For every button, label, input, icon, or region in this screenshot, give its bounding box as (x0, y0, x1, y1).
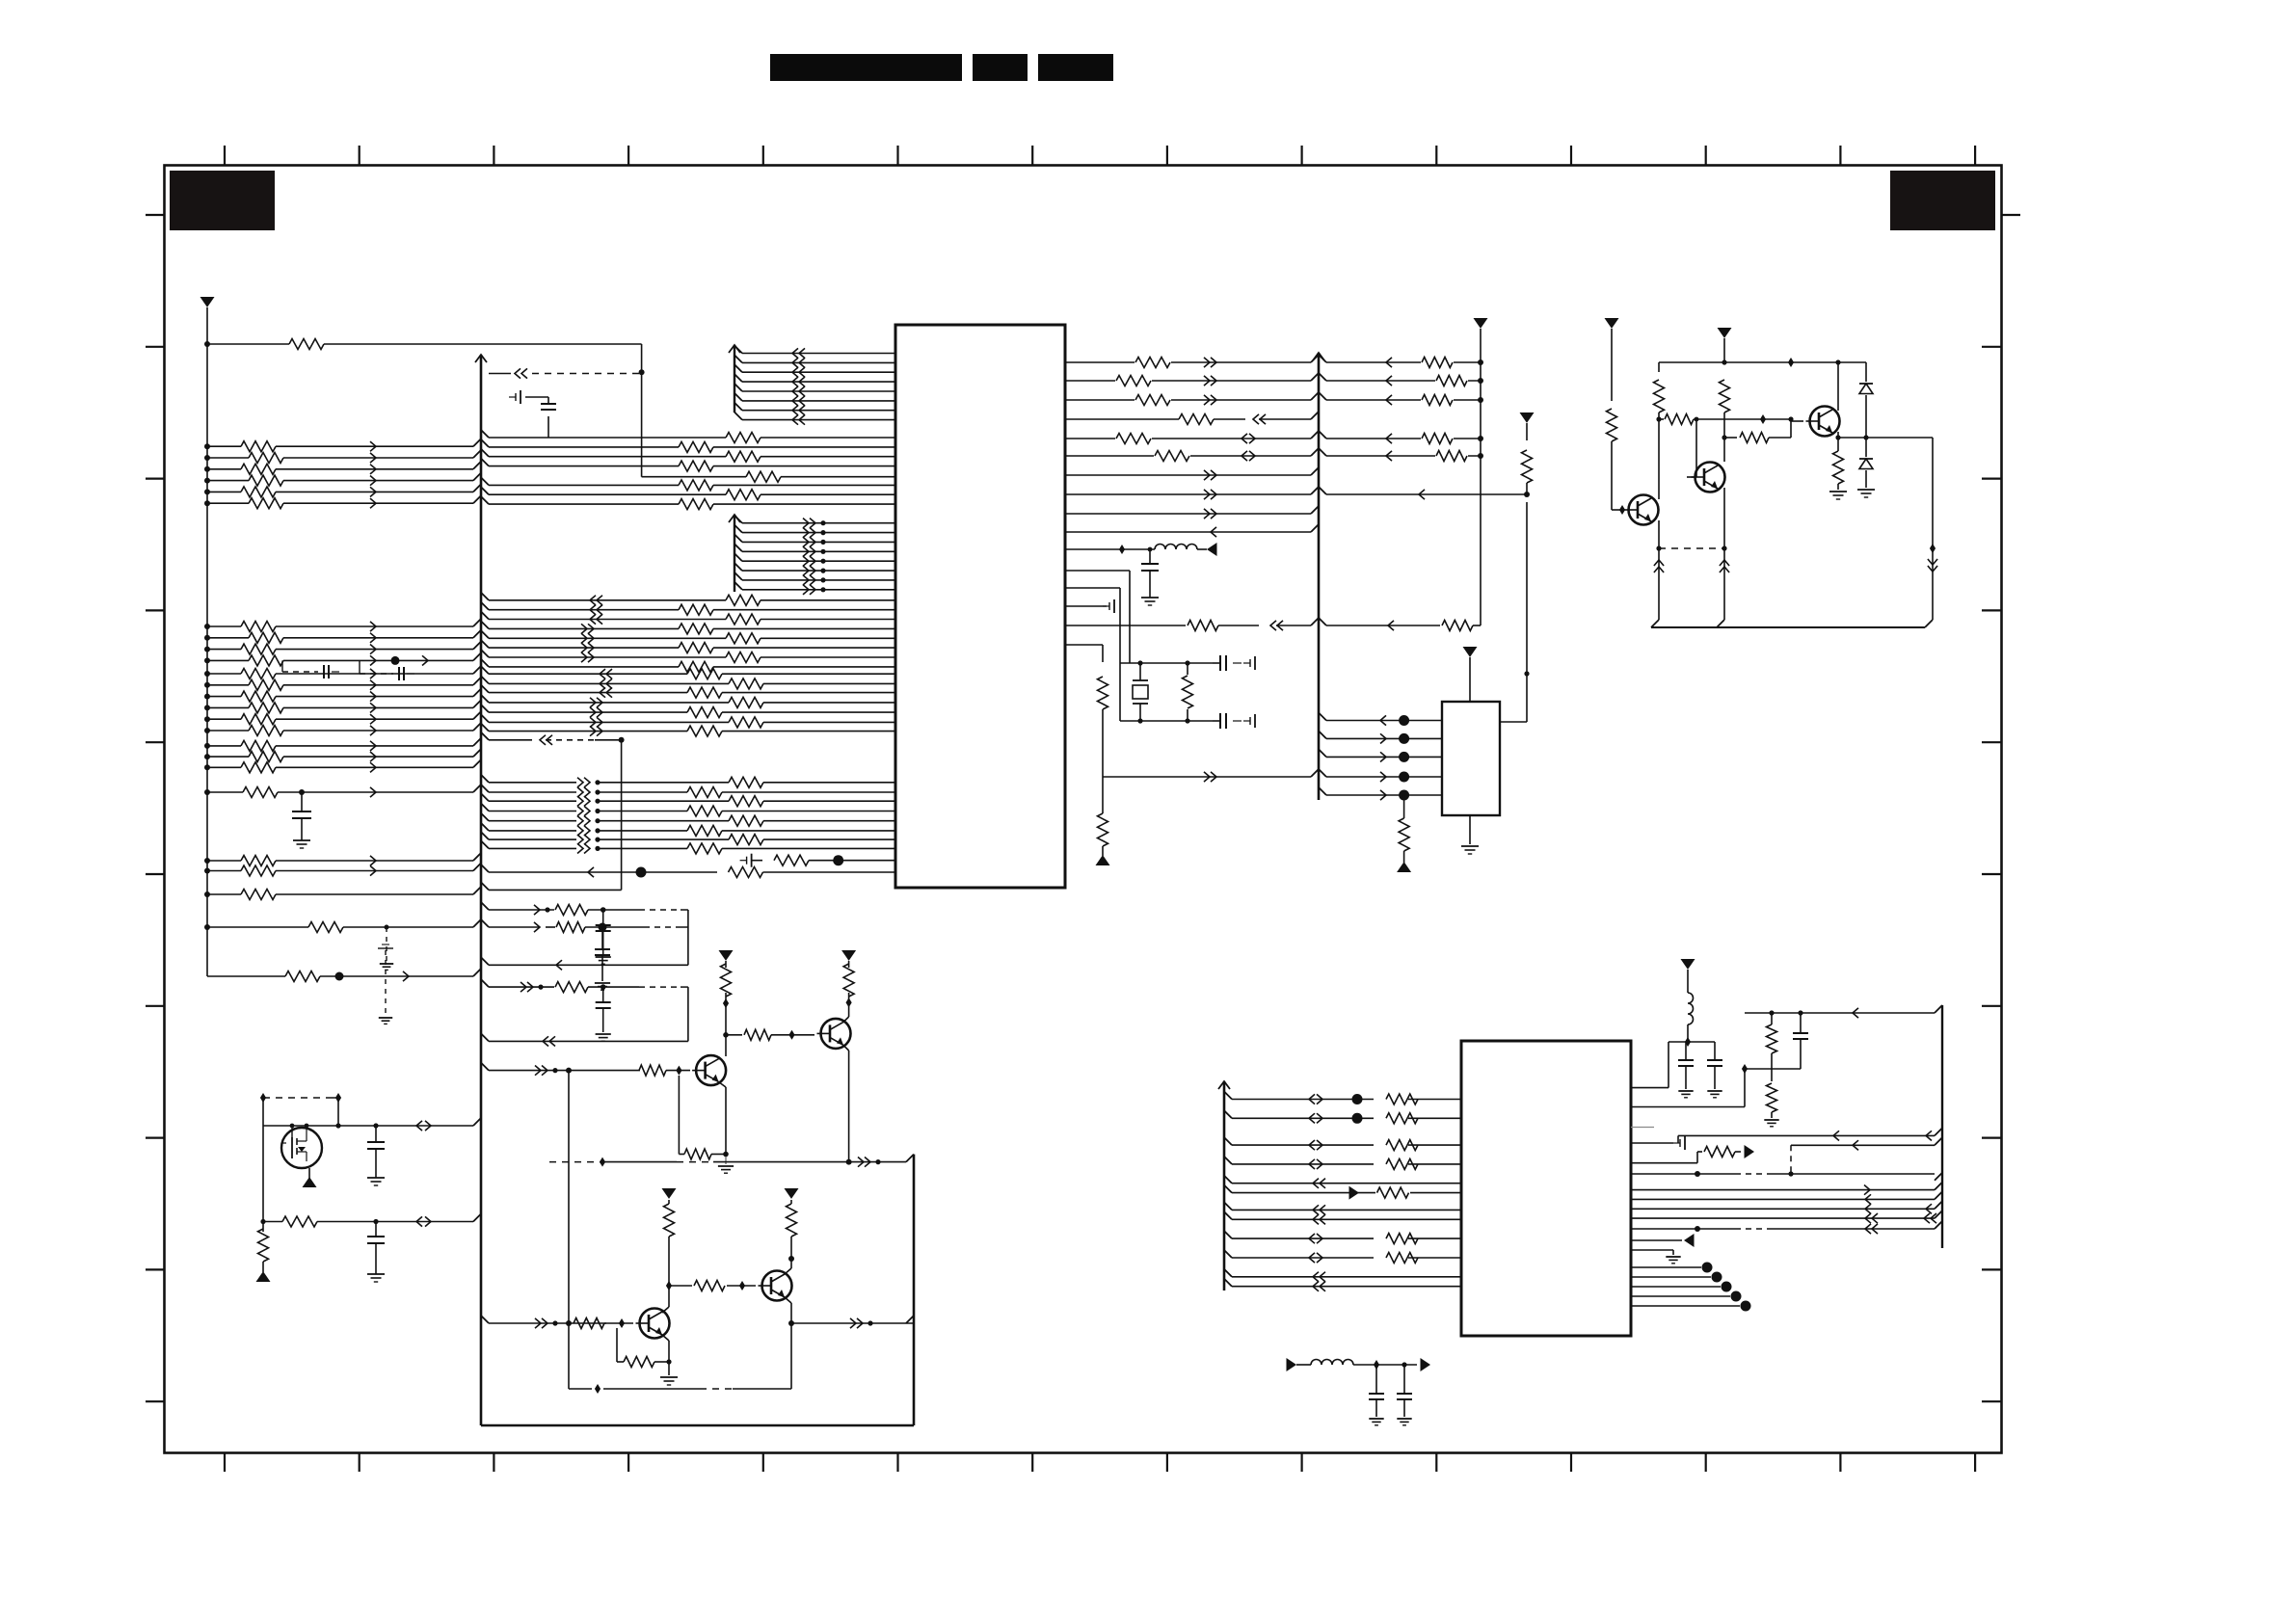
bus fan A into U1 (729, 345, 895, 425)
capacitor C131 (596, 987, 611, 1041)
wire U2 pin5 (1631, 1145, 1754, 1163)
wire Q3 collector (1837, 362, 1839, 411)
IC U1 (main processor) (895, 325, 1065, 888)
wire row1373 right (791, 1316, 914, 1328)
resistor R171 vertical (1183, 676, 1193, 708)
wire x1144 down (1102, 709, 1104, 777)
inductor L1 (1155, 545, 1197, 550)
wire U2 pin7 (1631, 1183, 1942, 1195)
transistor Q5 (817, 1019, 851, 1049)
transistor Q8 (MOSFET) (281, 1128, 322, 1168)
power symbol V5 (1474, 318, 1488, 329)
node base Q4 (666, 1066, 690, 1076)
wire Q6Q7 link (669, 1285, 692, 1287)
resistor R148 row905 (481, 865, 895, 878)
IC U3 (reset/regulator) (1442, 702, 1500, 815)
resistor R145 row1013 (207, 971, 473, 982)
wire U2 input rows (1232, 1092, 1461, 1291)
resistor R177 vertical (1522, 450, 1533, 483)
capacitor C130 (596, 910, 611, 964)
capacitor C123 (1369, 1365, 1384, 1425)
wire right leg x2005 (1930, 438, 1936, 620)
wire row357 to corner (207, 343, 642, 345)
capacitor C108 (595, 927, 610, 990)
wire row962 right (481, 919, 688, 933)
bus joint row1373 (481, 1316, 489, 1323)
transistor Q2 (1692, 463, 1725, 492)
resistor R151 vertical (258, 1229, 269, 1272)
resistor R137 row (204, 752, 473, 762)
resistor R113 row (204, 475, 473, 486)
power return A3 (1096, 855, 1110, 865)
wire Q6 collector (662, 1237, 672, 1313)
resistor bank RB2 rows into U1 (481, 593, 895, 673)
resistor R183 row435 (1659, 414, 1794, 425)
wire Q1 collector (1658, 494, 1660, 499)
wire row1373 (489, 1318, 606, 1328)
resistor R158 (574, 1318, 604, 1329)
wire LC mid (1353, 1360, 1417, 1370)
resistor R130 row (204, 669, 473, 679)
wire left drop x273 (262, 1126, 264, 1232)
capacitor C111 (1213, 655, 1255, 671)
wire loop1 right edge (687, 910, 689, 965)
wire Q2 emitter (1722, 488, 1726, 620)
wire U3 input rows (1319, 713, 1442, 801)
power return A4 (1397, 862, 1411, 872)
node vdd Q4 (723, 993, 729, 1008)
resistor R147 row893 (740, 854, 895, 867)
bus joint row1205 right (906, 1155, 914, 1162)
wire Q2 base (1687, 476, 1690, 478)
wire row592 (1065, 571, 1130, 663)
capacitor C122 (1793, 1010, 1808, 1069)
power symbol V9 (1718, 328, 1732, 362)
wire row1110 (489, 1066, 640, 1076)
block outline bottom-left (481, 1147, 914, 1425)
node base Q1 (1619, 505, 1625, 515)
power return A1 (303, 1177, 317, 1187)
node gate net (260, 1093, 266, 1126)
wire Q4Q5 link (726, 1034, 742, 1036)
wire crystal bottom rail (1120, 718, 1213, 723)
arrow out row570 (1197, 543, 1217, 556)
wire Q6 emitter (662, 1335, 672, 1375)
wire x1672 down (1612, 441, 1624, 510)
wire mosfet stubs (292, 1126, 309, 1184)
wire loop1 top row (481, 902, 688, 916)
wire U2 pin8 (1631, 1191, 1942, 1204)
wire base loop upper (568, 1071, 570, 1323)
title block bar 1 (770, 54, 962, 81)
label box top-left (170, 171, 275, 230)
capacitor C112 (1213, 713, 1255, 729)
wire U2 pin13 gnd (1631, 1250, 1681, 1264)
resistor bank RB5 overlays (1115, 356, 1468, 464)
resistor R150 row1267 (260, 1216, 473, 1227)
wire row629 stub (1065, 599, 1114, 613)
resistor R138 row (204, 762, 473, 773)
bus/net U2 left vertical (1218, 1081, 1232, 1290)
wire bottom rail TR (1651, 620, 1933, 627)
ground Q6 (660, 1377, 678, 1385)
bus fan B into U1 (729, 515, 895, 595)
resistor R141 row (204, 856, 473, 866)
label box top-right (1890, 171, 1995, 230)
wire row806 (1103, 769, 1319, 782)
wire Q4 collector (719, 1003, 729, 1059)
resistor R157 (679, 1076, 726, 1159)
resistor R133 row (204, 703, 473, 713)
wire crystal top rail (1120, 660, 1213, 665)
power symbol V1 (719, 950, 734, 961)
power symbol V6 (1463, 647, 1478, 702)
capacitor C201 to ground (509, 390, 556, 438)
resistor R174 vertical (1098, 677, 1108, 709)
bus joint row1168 (473, 1118, 481, 1126)
resistor R160 (694, 1281, 725, 1291)
resistor R146 row494 (642, 471, 895, 482)
resistor R162 feedback (617, 1328, 669, 1368)
ground dashed net row1013 (378, 945, 393, 1024)
wire row1178 (1678, 1128, 1942, 1143)
resistor R121 row (204, 632, 473, 643)
resistor R181 vertical (1654, 380, 1665, 412)
power symbol V8 (1605, 318, 1619, 401)
node on left bus (204, 341, 210, 347)
capacitor C120 (1678, 1042, 1694, 1098)
inductor L2 vertical (1688, 970, 1694, 1042)
wire U3 right pin (1500, 502, 1530, 722)
resistor R173 row649 right (1319, 618, 1481, 631)
diode D1 (1859, 362, 1873, 438)
wire U2 pin4 (1631, 1136, 1685, 1150)
transistor Q4 (692, 1055, 726, 1085)
resistor R152 (639, 1065, 666, 1076)
bus/net U2 right vertical (1941, 1005, 1943, 1248)
ground Q4 (718, 1157, 734, 1173)
resistor R135 row (204, 726, 473, 736)
resistor R101 (289, 339, 324, 350)
resistor R122 row (204, 644, 473, 654)
power symbol V4 (785, 1188, 799, 1199)
resistor R175 vertical (1098, 777, 1108, 856)
capacitor C103 (dashed net) (360, 655, 428, 680)
wire x1584 (1526, 483, 1528, 494)
resistor R132 row (204, 691, 473, 702)
power return A2 (256, 1271, 271, 1282)
border frame (165, 166, 2002, 1453)
wire rows 493-552 to bus (1065, 467, 1319, 537)
power symbol V10 (1681, 959, 1695, 970)
resistor R161 vertical (787, 1200, 797, 1237)
border tick marks (146, 146, 2020, 1472)
diode D2 (1857, 438, 1875, 497)
wire node1109 (1745, 1068, 1801, 1070)
wire Q3 emitter (1835, 432, 1933, 440)
wire dashed row388 (489, 373, 642, 375)
resistor R143 row928 (204, 890, 473, 900)
wire Q5 collector (843, 993, 852, 1022)
IC U2 (bottom-right) (1461, 1041, 1631, 1336)
wire dashed emitter link (1659, 547, 1724, 549)
resistor bank RB4 rows into U1 (481, 775, 895, 854)
power symbol VCC left (200, 297, 215, 344)
resistor R144 row962 (204, 922, 473, 933)
resistor R134 row (204, 714, 473, 725)
wire loop2 right edge (687, 987, 689, 1041)
resistor R182 vertical (1720, 380, 1730, 462)
capacitor C104 (292, 792, 311, 848)
wire row1188 (1791, 1137, 1942, 1174)
power symbol V2 (841, 950, 856, 961)
bus joint row1267 (473, 1214, 481, 1222)
resistor bank RB5 U1 right rows (1065, 355, 1483, 462)
wire U2 pin10 (1631, 1211, 1942, 1223)
capacitor C107 (367, 1219, 385, 1282)
title block bar 3 (1038, 54, 1113, 81)
resistor R159 vertical (664, 1200, 675, 1237)
resistor R170 row435 (1065, 412, 1319, 425)
wire x1721 mid (1656, 412, 1661, 494)
transistor Q7 (759, 1271, 792, 1301)
wire loop2 bottom row (481, 1033, 688, 1046)
power symbol V7 (1520, 412, 1535, 440)
resistor R155 vertical (843, 961, 854, 997)
crystal X1 (1133, 680, 1148, 704)
wire vertical x665 (641, 344, 643, 477)
wire crystal legs (1140, 663, 1188, 721)
capacitor C110 (1141, 547, 1159, 605)
wire dashed gate link (263, 1093, 341, 1129)
resistor bank RB1 rows into U1 (481, 430, 895, 510)
arrow row388 (515, 368, 527, 378)
node base Q7 (727, 1281, 756, 1290)
arrow in LC (1287, 1358, 1312, 1371)
resistor R110 row (204, 441, 473, 452)
resistor R123 row (204, 655, 473, 666)
wire loop2 top row (481, 979, 688, 993)
capacitor C124 (1397, 1365, 1412, 1425)
resistor R136 row (204, 740, 473, 751)
resistor R115 row (204, 498, 473, 509)
bus/net U1 right vertical (1313, 353, 1324, 800)
resistor R190 vertical (1767, 1010, 1777, 1069)
capacitor C106 (367, 1123, 385, 1185)
test point dots U2 (1631, 1263, 1751, 1312)
bus/net main vertical (473, 355, 487, 1147)
resistor R180 vertical (1607, 409, 1617, 441)
wire U2 pin12 (1631, 1234, 1695, 1247)
resistor R172 row649 (1065, 618, 1319, 631)
resistor R153 vertical (721, 961, 732, 997)
wire Q2 base drop (1690, 419, 1696, 477)
resistor R111 row (204, 453, 473, 464)
wire right rail (1480, 329, 1482, 625)
wire U2 vdd rail (1669, 1037, 1715, 1047)
wire base loop lower (569, 1323, 791, 1394)
node base Q6 (604, 1318, 633, 1328)
arrows up x1789 (1720, 560, 1729, 572)
wire rail left leg (1658, 362, 1660, 372)
wire U2 pin6 (1631, 1171, 1942, 1181)
wire Q3 base link (1791, 419, 1803, 421)
wire Q5 emitter (843, 1045, 852, 1164)
wire loop1 bottom row (481, 957, 688, 970)
inductor L3 (1311, 1360, 1353, 1365)
resistor R120 row (204, 622, 473, 632)
wire U2 pin3 stub (1631, 1127, 1654, 1129)
arrow pair row1168 (416, 1121, 431, 1131)
wire row1205 (549, 1157, 906, 1167)
wire mosfet rail (263, 1124, 473, 1129)
title block bar 2 (973, 54, 1028, 81)
wire Q7 collector (785, 1237, 794, 1274)
capacitor C105 dashed (380, 925, 393, 971)
wire U2 pin11 (1631, 1221, 1942, 1234)
resistor R185 vertical (1829, 438, 1847, 499)
transistor Q3 (1806, 407, 1840, 437)
arrows up x1721 (1654, 560, 1664, 572)
wire row610 (1065, 588, 1120, 721)
resistor bank RB3 rows into U1 (481, 666, 895, 736)
power symbol V3 (662, 1188, 677, 1199)
wire row1051 (1745, 1005, 1942, 1018)
wire Q4 emitter (719, 1082, 729, 1157)
wire row669 (1065, 645, 1103, 662)
node base Q5 (771, 1030, 814, 1040)
bus joint row1110 (481, 1063, 489, 1071)
node fan junction (639, 369, 645, 375)
transistor Q6 (636, 1309, 670, 1339)
resistor R112 row (204, 464, 473, 474)
wire left supply bus (206, 344, 208, 976)
resistor R154 (744, 1029, 771, 1040)
transistor Q1 (1625, 495, 1659, 525)
wire Q7 emitter (785, 1297, 794, 1326)
resistor R114 row (204, 487, 473, 497)
arrows down x2005 (1928, 559, 1937, 572)
wire row513 long (1319, 487, 1530, 499)
resistor R142 row (204, 865, 473, 876)
resistor R131 row (204, 679, 473, 690)
resistor R176 vertical (1399, 795, 1409, 863)
ground U3 (1461, 815, 1479, 854)
arrow pair row1267 (416, 1216, 431, 1226)
arrow out LC (1421, 1358, 1431, 1371)
wire top rail (1659, 358, 1866, 367)
wire U2 pin9 (1631, 1201, 1942, 1213)
wire U2 pin1 (1631, 1042, 1669, 1088)
capacitor C121 (1707, 1042, 1722, 1098)
resistor R184 row454 (1724, 419, 1791, 443)
wire row570 (1065, 545, 1155, 554)
resistor R191 vertical (1764, 1069, 1778, 1127)
resistor R140 row822 (204, 787, 473, 798)
wire Q1 emitter (1656, 520, 1661, 620)
capacitor C102 (dashed net) (282, 660, 339, 678)
wire U2 pin2 (1631, 1064, 1748, 1107)
wire row768 dashed link (481, 732, 625, 891)
